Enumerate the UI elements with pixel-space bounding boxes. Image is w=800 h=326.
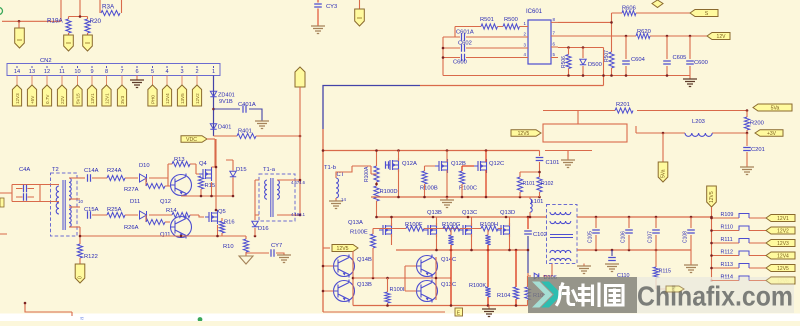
svg-text:R111: R111: [721, 237, 733, 243]
junction: [390, 216, 393, 219]
junction: [527, 249, 530, 252]
ground: [482, 309, 496, 317]
junction: [232, 195, 235, 198]
svg-text:13V5: 13V5: [180, 93, 185, 104]
junction: [322, 149, 325, 152]
junction: [254, 235, 257, 238]
svg-text:3V3: 3V3: [120, 95, 125, 104]
net tag 12V4: [766, 252, 795, 259]
wire: [207, 138, 215, 140]
junction: [508, 249, 511, 252]
junction: [710, 242, 713, 245]
rail y312: [323, 311, 445, 313]
svg-text:+3V: +3V: [767, 131, 777, 137]
svg-text:C600: C600: [453, 60, 467, 66]
svg-text:10: 10: [74, 69, 80, 75]
svg-text:0.7V: 0.7V: [45, 94, 50, 104]
svg-text:R201: R201: [616, 102, 630, 108]
junction: [446, 196, 449, 199]
junction: [442, 56, 445, 59]
mosfet Q12A: [386, 158, 399, 172]
wire: [425, 151, 448, 198]
op-amp IC601: [528, 20, 551, 64]
mosfet Q12C: [474, 159, 487, 173]
svg-text:ZD401: ZD401: [218, 93, 235, 99]
svg-text:12V3: 12V3: [15, 93, 20, 104]
svg-text:12V4: 12V4: [777, 253, 789, 259]
svg-text:Q13D: Q13D: [500, 210, 515, 216]
wire: [196, 76, 198, 86]
junction: [322, 265, 325, 268]
svg-text:R13: R13: [174, 157, 185, 163]
wire: [424, 184, 426, 197]
ground: [277, 255, 291, 263]
wire: [91, 76, 93, 86]
pin tag: [12, 85, 21, 106]
bus wire blue: [323, 86, 420, 130]
svg-text:C101: C101: [546, 160, 560, 166]
resistor R507: [609, 52, 614, 68]
svg-text:R100I: R100I: [390, 287, 405, 293]
resistor R114: [712, 280, 767, 282]
net tag +3V: [755, 130, 783, 137]
pin tag: [192, 85, 201, 106]
wire: [181, 76, 183, 86]
wire: [359, 0, 361, 9]
svg-text:12V: 12V: [717, 34, 727, 40]
capacitor CY3: [317, 0, 319, 26]
svg-text:Q14C: Q14C: [441, 257, 456, 263]
wire: [323, 251, 353, 306]
IC601 pin 5: [551, 57, 558, 59]
svg-text:4.198.1: 4.198.1: [291, 212, 306, 217]
watermark overlay tags redraw: [666, 275, 795, 293]
wire: [405, 257, 436, 300]
diode D401: [210, 124, 216, 129]
svg-text:R100H: R100H: [480, 222, 498, 228]
diode D15: [226, 160, 233, 196]
wire: [121, 76, 123, 86]
junction: [666, 35, 669, 38]
mosfet Q5: [205, 210, 218, 224]
wire: [146, 178, 170, 186]
svg-text:C108: C108: [683, 231, 689, 243]
junction: [375, 149, 378, 152]
svg-text:C601A: C601A: [456, 30, 474, 36]
net tag: [707, 186, 717, 207]
svg-text:R3A: R3A: [102, 4, 115, 11]
svg-text:R100D: R100D: [380, 189, 398, 195]
junction: [212, 108, 215, 111]
resistor R24A: [107, 175, 125, 180]
junction: [215, 209, 218, 212]
junction: [18, 20, 21, 23]
capacitor C401A: [214, 109, 263, 121]
wire: [520, 192, 540, 199]
svg-text:4.674.6: 4.674.6: [291, 180, 306, 185]
wire: [583, 264, 585, 267]
svg-text:12V1: 12V1: [777, 216, 789, 222]
wire: [77, 76, 79, 86]
IC601 pin 1: [521, 26, 528, 28]
resistor R26A: [146, 219, 165, 224]
resistor: [485, 235, 490, 245]
svg-text:R122: R122: [84, 254, 98, 260]
net tag 5Va: [753, 104, 792, 111]
svg-text:R100G: R100G: [442, 222, 461, 228]
wire y278: [353, 277, 451, 279]
rail y305: [353, 305, 528, 307]
junction: [442, 47, 445, 50]
IC601 pin 4: [521, 57, 528, 59]
junction: [710, 254, 713, 257]
resistor R100A: [374, 166, 379, 182]
svg-text:PH0: PH0: [151, 95, 156, 104]
wire: [543, 111, 747, 125]
svg-text:R100F: R100F: [405, 222, 423, 228]
resistor R501: [481, 24, 498, 29]
resistor R100D: [374, 186, 379, 201]
junction: [538, 196, 541, 199]
junction: [690, 216, 693, 219]
rail y217: [377, 216, 547, 218]
mosfet Q12B: [435, 159, 448, 173]
svg-text:C600: C600: [694, 60, 708, 66]
rail y250 right: [577, 249, 691, 251]
net tag VDC: [181, 136, 207, 143]
wire left bus: [442, 37, 444, 76]
junction: [450, 249, 453, 252]
pin tag: [57, 85, 66, 106]
svg-text:CY3: CY3: [326, 4, 337, 10]
wire: [689, 76, 691, 80]
capacitor C601A: [443, 36, 521, 38]
rail 12V top: [323, 150, 540, 152]
svg-text:6: 6: [672, 287, 675, 292]
svg-text:R113: R113: [721, 262, 734, 268]
svg-text:T1-a: T1-a: [263, 167, 276, 173]
IC601 pin 6: [551, 46, 558, 48]
resistor R100F: [406, 226, 424, 231]
svg-text:5Va: 5Va: [661, 169, 667, 178]
pin tag: [102, 85, 111, 106]
rail y250: [396, 249, 528, 251]
junction: [461, 196, 464, 199]
capacitor C4A: [0, 185, 40, 202]
svg-text:D11: D11: [130, 199, 140, 205]
svg-text:12V5: 12V5: [709, 191, 715, 203]
resistor R100E: [370, 234, 375, 248]
wire: [146, 215, 170, 222]
junction: [527, 216, 530, 219]
T3 core: [550, 235, 573, 238]
svg-text:Q13B: Q13B: [357, 282, 372, 288]
pin tag: [117, 85, 126, 106]
svg-text:3: 3: [180, 69, 183, 75]
svg-text:R401: R401: [238, 129, 252, 135]
junction: [655, 249, 658, 252]
transistor Q14C: [417, 256, 438, 277]
svg-text:R27A: R27A: [124, 187, 139, 193]
junction: [610, 21, 613, 24]
IC601 pin 8: [551, 21, 558, 23]
wire: [168, 164, 199, 186]
svg-text:C602: C602: [458, 41, 472, 47]
resistor R506: [568, 48, 570, 76]
net flag: [64, 35, 74, 51]
svg-text:R101: R101: [523, 181, 536, 187]
T3 winding bottom a: [550, 250, 571, 253]
wire: [520, 172, 540, 177]
wire: [69, 226, 80, 228]
transistor Q14B: [334, 256, 355, 277]
mosfet Q13D: [497, 223, 510, 237]
junction: [625, 74, 628, 77]
svg-text:≈: ≈: [80, 316, 84, 322]
svg-text:12V4: 12V4: [165, 93, 170, 104]
wire: [662, 133, 664, 162]
svg-text:IC601: IC601: [526, 9, 543, 15]
junction: [423, 196, 426, 199]
wire: [40, 184, 59, 186]
svg-text:12V2: 12V2: [777, 228, 789, 234]
wire: [181, 139, 233, 210]
resistor R109: [712, 217, 767, 219]
resistor R14: [172, 212, 190, 217]
svg-text:R112: R112: [721, 250, 734, 256]
green arc: [0, 8, 3, 15]
junction: [710, 216, 713, 219]
net flag: [295, 67, 305, 87]
svg-text:7: 7: [120, 69, 123, 75]
wire: [636, 126, 747, 133]
junction: [746, 132, 749, 135]
zener ZD401: [210, 91, 216, 96]
svg-text:CT: CT: [337, 172, 345, 178]
capacitor C105: [595, 217, 597, 250]
wire: [40, 201, 59, 203]
wire: [451, 230, 488, 235]
junction: [710, 217, 713, 220]
wire: [460, 228, 502, 230]
wire: [299, 87, 301, 136]
diode D11: [140, 211, 147, 219]
junction: [386, 304, 389, 307]
resistor R500: [503, 24, 520, 29]
junction: [611, 249, 614, 252]
junction: [529, 216, 532, 219]
svg-text:Q13C: Q13C: [462, 210, 477, 216]
junction: [200, 195, 203, 198]
capacitor C14A: [88, 174, 91, 182]
wire: [61, 76, 63, 86]
wire: [450, 245, 452, 306]
wire: [46, 76, 48, 86]
transformer T3: [547, 205, 578, 264]
svg-text:R606: R606: [622, 6, 636, 12]
svg-text:13: 13: [29, 69, 35, 75]
wire: [87, 33, 89, 35]
resistor R110: [712, 230, 767, 232]
capacitor C107: [655, 217, 657, 250]
resistor R25A: [107, 212, 125, 217]
wire: [214, 139, 216, 167]
wire: [277, 136, 300, 215]
junction: [567, 74, 570, 77]
rail y75.5: [443, 75, 690, 77]
net tag: [511, 130, 541, 137]
svg-text:6: 6: [135, 69, 138, 75]
net stub: [0, 198, 4, 207]
wire: [527, 300, 529, 306]
T1-b winding: [336, 178, 339, 198]
junction: [567, 46, 570, 49]
svg-text:12V3: 12V3: [777, 241, 789, 247]
svg-text:4: 4: [165, 69, 168, 75]
svg-text:8: 8: [105, 69, 108, 75]
net tag 12V6: [766, 277, 795, 284]
zener D500: [582, 48, 584, 76]
pin tag: [73, 85, 82, 106]
capacitor C602: [443, 47, 521, 49]
resistor R104: [513, 287, 518, 299]
pin tag: [162, 85, 171, 106]
wire: [373, 229, 459, 235]
junction: [467, 216, 470, 219]
junction: [24, 302, 27, 305]
resistor R101: [517, 177, 522, 192]
wire: [68, 33, 70, 35]
wire pin7: [558, 35, 707, 37]
wire: [488, 306, 490, 310]
svg-text:12V5: 12V5: [777, 266, 789, 272]
resistor R200: [746, 111, 748, 118]
svg-text:D500: D500: [588, 62, 602, 68]
svg-text:R102: R102: [541, 181, 554, 187]
svg-text:11: 11: [59, 69, 65, 75]
wire main lower rail: [80, 236, 246, 244]
resistor R112: [712, 255, 767, 257]
svg-text:R506: R506: [561, 56, 567, 68]
junction: [435, 277, 438, 280]
junction: [746, 109, 749, 112]
ground: [311, 26, 325, 34]
svg-text:22V: 22V: [60, 95, 65, 104]
wire: [323, 247, 330, 249]
resistor R122: [77, 244, 82, 258]
svg-text:L203: L203: [692, 119, 705, 125]
resistor R100H: [481, 226, 498, 231]
pin tag: [87, 85, 96, 106]
capacitor C15A: [88, 211, 91, 219]
wire: [166, 76, 168, 86]
junction: [375, 183, 378, 186]
wire: [377, 211, 392, 245]
svg-text:R15: R15: [205, 183, 216, 189]
svg-text:Q13B: Q13B: [427, 210, 442, 216]
svg-text:12: 12: [44, 69, 50, 75]
wire: [372, 248, 374, 278]
junction: [710, 279, 713, 282]
IC601 pin 3: [521, 47, 528, 49]
resistor R13: [172, 161, 190, 166]
net tag: [666, 286, 684, 292]
capacitor C106: [628, 217, 630, 250]
wire: [69, 0, 88, 19]
ground: [440, 200, 454, 208]
junction: [487, 249, 490, 252]
svg-text:R500: R500: [504, 17, 518, 23]
net tag 5Va: [658, 162, 668, 182]
svg-text:C102: C102: [533, 232, 547, 238]
capacitor C108: [690, 217, 692, 250]
capacitor C605: [666, 36, 668, 76]
pin tag: [42, 85, 51, 106]
net tag 12V3: [766, 240, 795, 247]
resistor R10: [245, 236, 247, 256]
IC601 pin 7: [551, 35, 558, 37]
svg-text:Q12A: Q12A: [402, 161, 417, 167]
junction: [375, 216, 378, 219]
mosfet Q4: [199, 167, 212, 181]
svg-text:Q12C: Q12C: [489, 161, 504, 167]
wire: [136, 76, 138, 81]
net diamond: [652, 0, 663, 8]
junction: [666, 74, 669, 77]
resistor: [448, 235, 453, 245]
resistor R15: [198, 176, 203, 189]
resistor R100K: [485, 287, 490, 297]
svg-text:9V1B: 9V1B: [219, 99, 233, 105]
svg-text:12V2: 12V2: [195, 93, 200, 104]
wire: [461, 184, 463, 197]
svg-text:1: 1: [212, 69, 215, 75]
ground: [683, 79, 697, 87]
wire: [529, 212, 531, 217]
svg-text:R16: R16: [224, 220, 235, 226]
T2 core: [63, 180, 65, 230]
connector CN2: [7, 64, 220, 76]
svg-text:R100E: R100E: [350, 230, 368, 236]
diode D106: [528, 264, 552, 277]
junction: [322, 290, 325, 293]
svg-text:2: 2: [195, 69, 198, 75]
T3 winding top a: [550, 212, 571, 215]
junction: [352, 277, 355, 280]
svg-text:R100B: R100B: [420, 186, 438, 192]
resistor R102: [537, 177, 542, 192]
svg-text:C14A: C14A: [84, 168, 99, 174]
svg-text:R100A: R100A: [364, 166, 370, 182]
capacitor C201: [746, 133, 748, 167]
wire: [0, 234, 72, 316]
svg-text:Q14B: Q14B: [357, 257, 372, 263]
transistor Q11: [171, 217, 192, 238]
svg-text:R100K: R100K: [469, 283, 486, 289]
junction: [515, 304, 518, 307]
svg-text:T2: T2: [52, 167, 59, 173]
svg-text:R110: R110: [721, 225, 734, 231]
svg-text:C605: C605: [673, 55, 687, 61]
junction: [79, 235, 82, 238]
wire: [69, 198, 80, 200]
svg-text:Q13C: Q13C: [441, 282, 456, 288]
wire: [711, 207, 713, 281]
wire pin8: [558, 13, 622, 52]
pin tag: [148, 85, 157, 106]
svg-text:+5V: +5V: [30, 95, 35, 104]
watermark chevron: [532, 282, 553, 308]
